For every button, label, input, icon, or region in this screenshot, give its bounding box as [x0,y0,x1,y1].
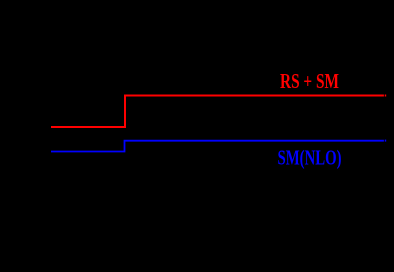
curve RS+SM (red step line) [51,96,384,128]
svg-text:SM(NLO): SM(NLO) [278,146,342,170]
curve SM(NLO) end dot [385,140,387,142]
svg-text:RS + SM: RS + SM [280,69,339,93]
curve RS+SM end dot [385,95,387,97]
curve SM(NLO) (blue step line) [51,141,384,152]
